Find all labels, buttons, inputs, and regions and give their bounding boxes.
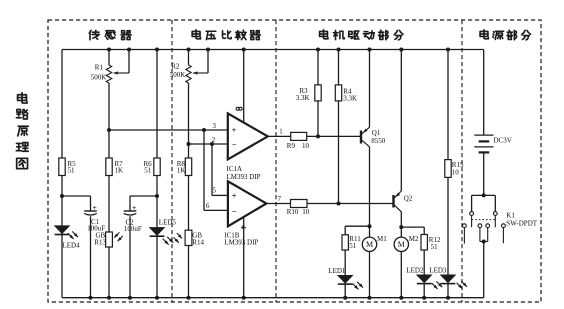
node R1-R7 junction — [107, 128, 111, 132]
wire pin2 input line — [189, 143, 228, 145]
node R3 rail — [316, 48, 320, 52]
node Q2 emitter rail — [399, 48, 403, 52]
wire Q2 collector — [400, 212, 402, 227]
resistor R4 — [338, 50, 340, 85]
op-amp IC1A — [228, 113, 268, 159]
photoresistor R13 GB — [106, 232, 113, 247]
svg-text:LED4: LED4 — [63, 241, 81, 249]
svg-text:R9: R9 — [287, 142, 296, 150]
wire R10 to Q2 base — [307, 203, 394, 205]
wire battery to switch — [483, 152, 485, 195]
section label 电源部分 — [480, 30, 488, 39]
svg-text:R2: R2 — [171, 63, 180, 71]
wire LED3 to ground — [447, 284, 449, 298]
svg-text:10: 10 — [302, 142, 310, 150]
wire pin2-pin5 link — [211, 144, 213, 195]
wire R14 to ground rail — [188, 246, 190, 298]
svg-text:DC3V: DC3V — [494, 136, 512, 144]
svg-text:10: 10 — [302, 208, 310, 216]
LED LED5 — [150, 228, 165, 236]
svg-text:5: 5 — [213, 187, 217, 194]
node Q1 emitter rail — [368, 48, 372, 52]
svg-text:M1: M1 — [377, 235, 387, 243]
LED LED2 — [417, 275, 432, 283]
resistor R12 — [421, 235, 427, 251]
svg-text:51: 51 — [349, 242, 357, 250]
wire IC1B output pin7 — [266, 203, 290, 205]
svg-text:M: M — [366, 240, 373, 249]
node LED5 ground — [155, 296, 159, 300]
wire R13 to ground rail — [108, 247, 110, 298]
potentiometer R1 — [108, 50, 110, 66]
wire Q2 emitter to rail — [400, 50, 402, 192]
svg-text:−: − — [232, 207, 237, 216]
transistor Q2 8550 — [392, 195, 394, 208]
wire LED1 to ground — [344, 285, 346, 298]
node C2 ground — [128, 296, 132, 300]
svg-text:IC1A: IC1A — [227, 165, 243, 173]
wire IC1A output pin1 — [268, 135, 291, 137]
node R4-R10 — [337, 202, 341, 206]
svg-text:51: 51 — [144, 167, 152, 175]
wire collector node to R11 — [345, 225, 369, 227]
svg-text:+: + — [232, 126, 237, 135]
node LED2 ground — [422, 296, 426, 300]
svg-text:R14: R14 — [192, 239, 204, 247]
resistor R15 — [447, 50, 449, 160]
svg-text:10: 10 — [452, 168, 460, 176]
svg-text:LED5: LED5 — [159, 219, 177, 227]
transistor Q1 8550 — [360, 131, 362, 144]
R2 wiper arm — [207, 50, 209, 74]
svg-text:LM393 DIP: LM393 DIP — [227, 173, 261, 181]
switch K1 SW-DPDT — [472, 194, 496, 196]
R1 wiper arm — [128, 50, 130, 74]
svg-text:3.3K: 3.3K — [296, 94, 310, 102]
potentiometer R2 — [188, 50, 190, 66]
svg-text:K1: K1 — [506, 212, 515, 220]
IC1B pin4 ground — [243, 217, 245, 298]
node R13 ground — [107, 296, 111, 300]
svg-text:LED3: LED3 — [429, 266, 447, 274]
section label 电机驱动部分 — [320, 30, 328, 39]
node pin3 branch — [202, 128, 206, 132]
wire pin3-pin6 link — [203, 130, 205, 210]
node R1 top — [107, 48, 111, 52]
svg-text:6: 6 — [206, 203, 210, 210]
section divider comparator/motor — [275, 20, 277, 302]
svg-text:51: 51 — [68, 167, 76, 175]
svg-text:+: + — [93, 203, 97, 212]
svg-text:100uF: 100uF — [124, 225, 142, 233]
svg-text:M: M — [398, 240, 405, 249]
photoresistor R14 GB — [185, 230, 192, 245]
resistor R10 — [291, 200, 308, 208]
LED LED3 — [441, 275, 456, 283]
node LED1 ground — [343, 296, 347, 300]
resistor R3 — [317, 50, 319, 85]
node R6-LED5-C2 — [155, 194, 159, 198]
node R15 rail — [446, 48, 450, 52]
svg-text:M2: M2 — [409, 235, 419, 243]
svg-text:7: 7 — [278, 196, 282, 203]
motor M2 — [400, 227, 402, 237]
wire M2 to ground — [400, 252, 402, 298]
node pin2 branch — [210, 142, 214, 146]
LED LED4 — [55, 226, 70, 234]
wire R6 column — [156, 50, 158, 159]
node R6 rail — [155, 48, 159, 52]
wire left column — [61, 50, 63, 159]
node switch to ground — [482, 240, 486, 244]
section divider motor/power — [461, 20, 463, 302]
wire R11 to LED1 — [344, 250, 346, 275]
node R2 wiper rail — [206, 48, 210, 52]
wire top supply rail — [62, 49, 484, 51]
node R1 wiper rail — [127, 48, 131, 52]
node C1 ground — [89, 296, 93, 300]
node Q1 collector — [368, 224, 372, 228]
svg-text:51: 51 — [431, 243, 439, 251]
node R2-R8 junction — [187, 142, 191, 146]
capacitor C2 — [130, 195, 157, 197]
battery DC3V — [474, 134, 493, 136]
wire switch to ground rail — [483, 242, 485, 298]
section divider sensor/comparator — [171, 20, 173, 302]
svg-text:LM393 DIP: LM393 DIP — [224, 239, 258, 247]
capacitor C1 — [90, 196, 92, 211]
svg-text:1K: 1K — [115, 167, 124, 175]
wire Q1 collector — [369, 147, 371, 226]
outer dashed border — [48, 20, 541, 302]
resistor R9 — [291, 132, 307, 140]
node Q2 collector — [399, 225, 403, 229]
node LED3 ground — [446, 296, 450, 300]
motor M1 — [369, 226, 371, 237]
svg-text:R1: R1 — [95, 64, 104, 72]
svg-text:1: 1 — [279, 129, 282, 136]
svg-text:R10: R10 — [287, 208, 299, 216]
svg-text:+: + — [232, 191, 237, 200]
node switch common — [482, 193, 486, 197]
wire pin3 input line — [109, 129, 228, 131]
svg-text:Q1: Q1 — [372, 129, 381, 137]
svg-text:LED1: LED1 — [328, 267, 346, 275]
node R2 top — [187, 48, 191, 52]
wire ground rail — [62, 297, 484, 299]
svg-text:500K: 500K — [170, 71, 186, 79]
vertical title 电路原理图 — [18, 93, 27, 103]
resistor R11 — [342, 235, 348, 250]
svg-text:1K: 1K — [177, 167, 186, 175]
svg-text:500K: 500K — [91, 74, 107, 82]
wire R9 to Q1 base — [307, 135, 361, 137]
svg-text:LED2: LED2 — [406, 266, 424, 274]
wire LED2 to ground — [423, 284, 425, 298]
node R3-R9 — [316, 134, 320, 138]
LED LED1 — [338, 275, 353, 283]
node IC1B ground rail — [242, 296, 246, 300]
wire R12 to LED2 — [423, 250, 425, 275]
svg-text:Q2: Q2 — [404, 195, 413, 203]
section label 电压比较器 — [192, 30, 200, 39]
node R4 rail — [337, 48, 341, 52]
svg-text:SW-DPDT: SW-DPDT — [506, 220, 537, 228]
node R14 ground — [187, 296, 191, 300]
wire R7 to R13 — [108, 176, 110, 233]
resistor R8 — [185, 158, 191, 176]
wire M1 to ground — [369, 252, 371, 298]
wire R15 to LED3 — [447, 177, 449, 275]
node M2 ground — [399, 296, 403, 300]
wire Q1 emitter to rail — [369, 50, 371, 128]
svg-text:R13: R13 — [94, 238, 106, 246]
resistor R7 — [106, 158, 112, 176]
svg-text:8550: 8550 — [371, 137, 386, 145]
section label 传感器 — [89, 30, 99, 39]
svg-text:4: 4 — [239, 225, 247, 229]
node M1 ground — [368, 296, 372, 300]
resistor R5 — [59, 158, 65, 176]
IC1A pin8 supply — [243, 50, 245, 123]
svg-text:3.3K: 3.3K — [343, 95, 357, 103]
wire collector node to R12 — [401, 226, 424, 228]
svg-text:+: + — [132, 203, 136, 212]
svg-text:−: − — [232, 140, 237, 149]
wire rail to battery — [483, 50, 485, 136]
node IC1A supply rail — [242, 48, 246, 52]
op-amp IC1B — [228, 181, 267, 226]
node LED4-C1 — [60, 194, 64, 198]
svg-text:3: 3 — [213, 123, 217, 130]
resistor R6 — [154, 158, 160, 176]
wire to C1 — [62, 195, 91, 197]
wire R8 to R14 — [188, 176, 190, 231]
